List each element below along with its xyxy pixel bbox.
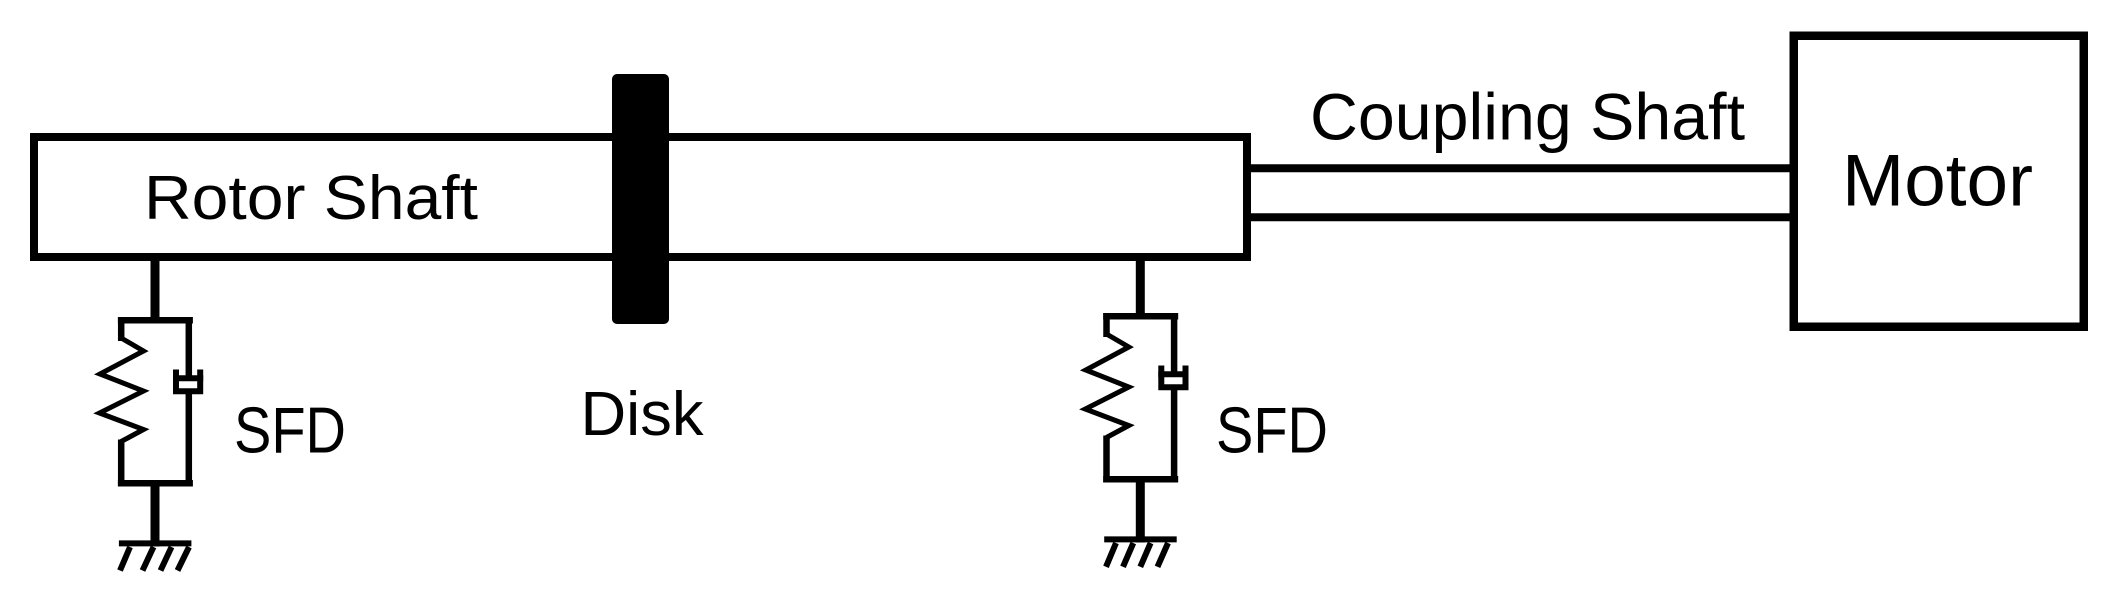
- SFD 1: ground hatch 1: [120, 547, 130, 571]
- SFD 1: damper rod upper: [186, 317, 193, 378]
- SFD 2: damper rod lower: [1171, 387, 1178, 483]
- rotor shaft box: [34, 137, 1247, 257]
- motor box: [1794, 36, 2084, 327]
- SFD 2: spring upper stub: [1103, 313, 1110, 337]
- SFD 1: ground hatch 2: [143, 547, 154, 571]
- SFD 1: damper rod lower: [186, 391, 193, 487]
- svg-text:SFD: SFD: [234, 394, 346, 467]
- SFD 2: damper rod upper: [1171, 313, 1178, 374]
- SFD 2: ground bar: [1104, 536, 1177, 542]
- svg-text:Motor: Motor: [1842, 141, 2033, 222]
- SFD 1: wire from shaft to damper unit: [151, 255, 160, 322]
- SFD 2: damper cup: [1161, 366, 1185, 388]
- SFD 2: ground hatch 4: [1158, 543, 1169, 567]
- SFD 1: spring lower stub: [118, 440, 125, 487]
- svg-text:Disk: Disk: [581, 380, 705, 449]
- SFD 2: spring lower stub: [1103, 436, 1110, 483]
- SFD 1: ground hatch 4: [178, 547, 190, 571]
- SFD 1: damper cup: [176, 370, 200, 392]
- coupling shaft bottom line: [1247, 213, 1793, 221]
- SFD 2: damper piston: [1158, 371, 1188, 377]
- SFD 2: ground hatch 2: [1123, 543, 1133, 567]
- coupling shaft top line: [1247, 164, 1793, 172]
- SFD 1: wire to ground: [151, 480, 160, 547]
- SFD 2: spring zigzag: [1085, 334, 1129, 438]
- SFD 1: ground bar: [119, 540, 191, 546]
- SFD 1: ground hatch 3: [161, 547, 172, 571]
- svg-text:SFD: SFD: [1216, 394, 1328, 467]
- SFD 1: top bar: [118, 317, 193, 324]
- SFD 1: bottom bar: [118, 480, 193, 487]
- SFD 2: wire from shaft to damper unit: [1136, 255, 1145, 318]
- SFD 2: bottom bar: [1103, 476, 1178, 483]
- svg-text:Rotor Shaft: Rotor Shaft: [144, 164, 478, 233]
- disk: [612, 74, 669, 324]
- SFD 1: spring upper stub: [118, 317, 125, 341]
- SFD 2: ground hatch 1: [1106, 543, 1116, 567]
- SFD 2: ground hatch 3: [1140, 543, 1150, 567]
- SFD 1: damper piston: [173, 375, 203, 381]
- svg-text:Coupling Shaft: Coupling Shaft: [1310, 80, 1745, 154]
- SFD 2: top bar: [1103, 313, 1178, 320]
- SFD 1: spring zigzag: [100, 338, 144, 442]
- SFD 2: wire to ground: [1136, 476, 1145, 543]
